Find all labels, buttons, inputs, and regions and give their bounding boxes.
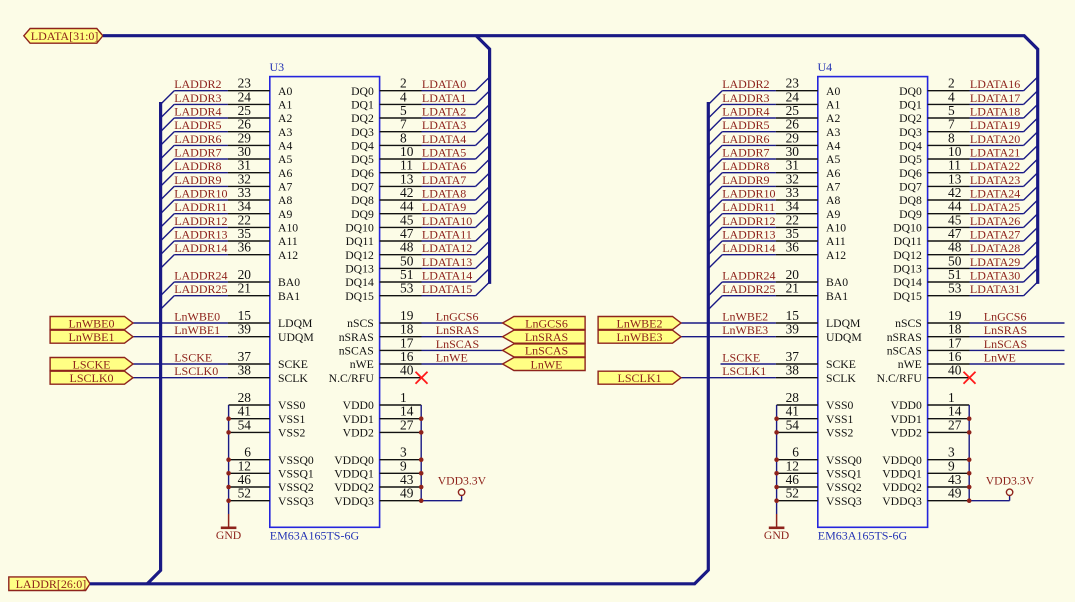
U3 pin 13 (DQ7) wire, net LDATA7, bus entry xyxy=(351,171,490,193)
svg-text:49: 49 xyxy=(400,486,414,501)
svg-text:LDATA12: LDATA12 xyxy=(422,241,472,255)
port LSCKE xyxy=(50,357,133,371)
svg-text:LADDR[26:0]: LADDR[26:0] xyxy=(16,577,87,591)
U3 VDD power rail wire xyxy=(421,405,461,501)
svg-text:LnGCS6: LnGCS6 xyxy=(436,310,479,324)
U4 pin 25 (A2) wire, net LADDR4, bus entry xyxy=(709,103,841,132)
port LSCLK1 xyxy=(598,371,681,385)
svg-text:UDQM: UDQM xyxy=(826,331,862,344)
U3 pin 4 (DQ1) wire, net LDATA1, bus entry xyxy=(351,89,490,111)
svg-text:VSS0: VSS0 xyxy=(278,399,305,412)
port LnWBE2 xyxy=(598,316,681,330)
svg-text:38: 38 xyxy=(786,363,800,378)
svg-text:VSS2: VSS2 xyxy=(278,427,305,440)
U3 pin 42 (DQ8) wire, net LDATA8, bus entry xyxy=(351,185,490,207)
svg-text:BA1: BA1 xyxy=(826,290,848,303)
U4 pin 34 (A9) wire, net LADDR11, bus entry xyxy=(709,199,841,228)
U4 pin 44 (DQ9) wire, net LDATA25, bus entry xyxy=(899,199,1038,221)
U3 power rail junctions xyxy=(419,416,424,503)
port LnGCS6 xyxy=(503,316,585,330)
svg-text:LADDR13: LADDR13 xyxy=(722,228,775,242)
svg-text:49: 49 xyxy=(948,486,962,501)
U4 pin 19 (nSCS) wire, net LnGCS6 xyxy=(895,308,1064,330)
svg-text:LADDR7: LADDR7 xyxy=(174,146,221,160)
svg-text:DQ14: DQ14 xyxy=(345,276,374,289)
U3 pin 10 (DQ5) wire, net LDATA5, bus entry xyxy=(351,144,490,166)
designator U4 xyxy=(818,60,833,74)
U3 pin 16 (nWE) wire, net LnWE xyxy=(350,349,503,371)
svg-text:21: 21 xyxy=(238,281,251,296)
U4 pin 38 (SCLK) wire, net LSCLK1 xyxy=(681,363,856,385)
svg-text:DQ13: DQ13 xyxy=(893,263,922,276)
U4 pin 3 (VDDQ0) xyxy=(882,445,969,467)
U4 pin 46 (VSSQ2) xyxy=(777,472,862,494)
svg-text:LnWE: LnWE xyxy=(436,351,468,365)
svg-text:LADDR11: LADDR11 xyxy=(722,200,775,214)
svg-text:DQ14: DQ14 xyxy=(893,276,922,289)
svg-text:LDQM: LDQM xyxy=(278,317,313,330)
svg-text:LnGCS6: LnGCS6 xyxy=(984,310,1027,324)
svg-text:VDDQ1: VDDQ1 xyxy=(334,467,374,480)
U3 pin 25 (A2) wire, net LADDR4, bus entry xyxy=(161,103,293,132)
svg-text:A10: A10 xyxy=(826,222,846,235)
svg-text:DQ9: DQ9 xyxy=(351,208,374,221)
U4 pin 27 (VDD2) xyxy=(891,417,970,439)
svg-text:VDD2: VDD2 xyxy=(343,427,374,440)
svg-text:LADDR5: LADDR5 xyxy=(174,118,221,132)
svg-text:LDATA24: LDATA24 xyxy=(970,187,1020,201)
svg-text:LSCLK0: LSCLK0 xyxy=(174,364,218,378)
svg-text:LADDR25: LADDR25 xyxy=(174,282,227,296)
IC U4 EM63A165TS-6G chip body xyxy=(818,77,928,528)
U3 pin 7 (DQ3) wire, net LDATA3, bus entry xyxy=(351,117,490,139)
U3 VSS ground rail wire xyxy=(228,405,230,514)
svg-text:U4: U4 xyxy=(818,60,833,74)
svg-text:LnWBE0: LnWBE0 xyxy=(69,316,115,330)
svg-text:LDATA13: LDATA13 xyxy=(422,255,472,269)
U4 pin 11 (DQ6) wire, net LDATA22, bus entry xyxy=(899,158,1038,180)
svg-text:DQ10: DQ10 xyxy=(893,222,922,235)
U4 pin 12 (VSSQ1) xyxy=(777,458,862,480)
svg-text:LADDR9: LADDR9 xyxy=(722,173,769,187)
svg-text:LADDR14: LADDR14 xyxy=(174,241,227,255)
U4 VDD power rail wire xyxy=(969,405,1009,501)
svg-text:A7: A7 xyxy=(278,181,292,194)
svg-text:A1: A1 xyxy=(826,99,840,112)
svg-text:A4: A4 xyxy=(278,140,292,153)
svg-text:DQ4: DQ4 xyxy=(899,140,922,153)
svg-text:A11: A11 xyxy=(826,235,846,248)
svg-text:LADDR6: LADDR6 xyxy=(174,132,221,146)
svg-text:LnGCS6: LnGCS6 xyxy=(525,316,568,330)
U3 ground rail junctions xyxy=(226,416,231,503)
svg-text:SCKE: SCKE xyxy=(826,358,856,371)
U3 pin 31 (A6) wire, net LADDR8, bus entry xyxy=(161,158,293,187)
U3 pin 14 (VDD1) xyxy=(343,404,422,426)
svg-text:LDATA27: LDATA27 xyxy=(970,228,1020,242)
svg-text:LADDR24: LADDR24 xyxy=(174,269,227,283)
svg-text:A10: A10 xyxy=(278,222,298,235)
svg-text:VSS0: VSS0 xyxy=(826,399,853,412)
IC U3 EM63A165TS-6G chip body xyxy=(270,77,380,528)
svg-text:LDATA5: LDATA5 xyxy=(422,146,466,160)
U4 pin 22 (A10) wire, net LADDR12, bus entry xyxy=(709,212,847,241)
U4 power rail junctions xyxy=(967,416,972,503)
svg-text:VSSQ2: VSSQ2 xyxy=(278,481,314,494)
svg-text:VSSQ1: VSSQ1 xyxy=(278,467,314,480)
svg-text:LADDR7: LADDR7 xyxy=(722,146,769,160)
svg-text:VSSQ0: VSSQ0 xyxy=(278,454,314,467)
svg-text:LSCKE: LSCKE xyxy=(72,357,110,371)
U3 pin 44 (DQ9) wire, net LDATA9, bus entry xyxy=(351,199,490,221)
svg-text:A8: A8 xyxy=(278,194,292,207)
svg-text:VSS1: VSS1 xyxy=(826,413,853,426)
ground symbol GND (U3) xyxy=(216,514,241,542)
svg-text:LSCKE: LSCKE xyxy=(722,351,760,365)
svg-text:nWE: nWE xyxy=(898,358,922,371)
U3 pin 40 (N.C/RFU) with no-connect X xyxy=(329,363,428,385)
svg-text:54: 54 xyxy=(238,417,252,432)
U4 pin 39 (UDQM) wire, net LnWBE3 xyxy=(681,322,862,344)
svg-text:LDATA28: LDATA28 xyxy=(970,241,1020,255)
svg-text:LnWBE2: LnWBE2 xyxy=(722,310,768,324)
svg-text:VDDQ0: VDDQ0 xyxy=(882,454,922,467)
svg-text:LSCKE: LSCKE xyxy=(174,351,212,365)
svg-text:A3: A3 xyxy=(278,126,292,139)
U4 pin 18 (nSRAS) wire, net LnSRAS xyxy=(887,322,1065,344)
U4 pin 7 (DQ3) wire, net LDATA19, bus entry xyxy=(899,117,1038,139)
svg-text:A6: A6 xyxy=(278,167,292,180)
svg-text:DQ1: DQ1 xyxy=(899,99,922,112)
port LnSCAS xyxy=(503,344,585,358)
svg-text:LDATA29: LDATA29 xyxy=(970,255,1020,269)
U4 pin 20 (BA0) wire, net LADDR24, bus entry xyxy=(709,267,849,296)
U3 pin 33 (A8) wire, net LADDR10, bus entry xyxy=(161,185,293,214)
svg-text:DQ12: DQ12 xyxy=(345,249,374,262)
svg-text:LADDR2: LADDR2 xyxy=(722,77,769,91)
svg-text:LADDR10: LADDR10 xyxy=(722,187,775,201)
U4 pin 43 (VDDQ2) xyxy=(882,472,969,494)
U4 ground rail junctions xyxy=(774,416,779,503)
U3 pin 48 (DQ12) wire, net LDATA12, bus entry xyxy=(345,240,489,262)
svg-text:LADDR6: LADDR6 xyxy=(722,132,769,146)
svg-text:LADDR13: LADDR13 xyxy=(174,228,227,242)
U3 pin 12 (VSSQ1) xyxy=(229,458,314,480)
svg-text:DQ5: DQ5 xyxy=(351,153,374,166)
svg-text:A11: A11 xyxy=(278,235,298,248)
svg-text:LDATA9: LDATA9 xyxy=(422,200,466,214)
U3 pin 35 (A11) wire, net LADDR13, bus entry xyxy=(161,226,298,255)
U3 pin 26 (A3) wire, net LADDR5, bus entry xyxy=(161,117,293,146)
svg-text:LnSRAS: LnSRAS xyxy=(984,323,1027,337)
svg-text:LDATA21: LDATA21 xyxy=(970,146,1020,160)
U4 pin 40 (N.C/RFU) with no-connect X xyxy=(877,363,976,385)
svg-text:36: 36 xyxy=(238,240,252,255)
U3 pin 34 (A9) wire, net LADDR11, bus entry xyxy=(161,199,293,228)
svg-text:40: 40 xyxy=(400,363,414,378)
U4 pin 10 (DQ5) wire, net LDATA21, bus entry xyxy=(899,144,1038,166)
U4 pin 1 (VDD0) xyxy=(891,390,970,412)
svg-text:LADDR2: LADDR2 xyxy=(174,77,221,91)
value label EM63A165TS-6G (U3) xyxy=(270,529,360,543)
U3 pin 22 (A10) wire, net LADDR12, bus entry xyxy=(161,212,299,241)
U3 pin 38 (SCLK) wire, net LSCLK0 xyxy=(133,363,308,385)
U4 pin 41 (VSS1) xyxy=(777,404,854,426)
svg-text:VDD0: VDD0 xyxy=(891,399,922,412)
U4 pin 37 (SCKE) wire, net LSCKE xyxy=(721,349,856,371)
U4 pin 5 (DQ2) wire, net LDATA18, bus entry xyxy=(899,103,1038,125)
svg-text:LnWBE3: LnWBE3 xyxy=(617,330,663,344)
svg-text:nSCS: nSCS xyxy=(347,317,374,330)
svg-text:DQ0: DQ0 xyxy=(899,85,922,98)
svg-text:VSSQ3: VSSQ3 xyxy=(278,495,314,508)
svg-text:DQ10: DQ10 xyxy=(345,222,374,235)
U4 pin 54 (VSS2) xyxy=(777,417,854,439)
svg-text:A2: A2 xyxy=(826,112,840,125)
U4 pin 15 (LDQM) wire, net LnWBE2 xyxy=(681,308,861,330)
svg-text:LADDR25: LADDR25 xyxy=(722,282,775,296)
U4 pin 30 (A5) wire, net LADDR7, bus entry xyxy=(709,144,841,173)
svg-text:VSSQ1: VSSQ1 xyxy=(826,467,862,480)
svg-text:LDQM: LDQM xyxy=(826,317,861,330)
svg-text:VDD3.3V: VDD3.3V xyxy=(986,474,1035,487)
U4 pin 14 (VDD1) xyxy=(891,404,970,426)
svg-text:LDATA3: LDATA3 xyxy=(422,118,466,132)
port LDATA[31:0] xyxy=(24,29,103,44)
svg-text:LADDR10: LADDR10 xyxy=(174,187,227,201)
svg-text:A8: A8 xyxy=(826,194,840,207)
svg-text:VSSQ3: VSSQ3 xyxy=(826,495,862,508)
svg-text:LADDR4: LADDR4 xyxy=(722,105,769,119)
svg-text:LADDR11: LADDR11 xyxy=(174,200,227,214)
svg-text:DQ9: DQ9 xyxy=(899,208,922,221)
U4 pin 17 (nSCAS) wire, net LnSCAS xyxy=(887,335,1065,357)
svg-text:U3: U3 xyxy=(270,60,285,74)
svg-text:DQ8: DQ8 xyxy=(351,194,374,207)
svg-text:LnSCAS: LnSCAS xyxy=(525,344,568,358)
svg-text:DQ1: DQ1 xyxy=(351,99,374,112)
svg-text:GND: GND xyxy=(764,529,789,542)
U4 pin 50 (DQ13) wire, net LDATA29, bus entry xyxy=(893,253,1037,275)
U4 pin 16 (nWE) wire, net LnWE xyxy=(898,349,1065,371)
port LnSRAS xyxy=(503,330,585,344)
svg-text:VDDQ3: VDDQ3 xyxy=(334,495,374,508)
U3 pin 20 (BA0) wire, net LADDR24, bus entry xyxy=(161,267,301,296)
U3 pin 49 (VDDQ3) xyxy=(334,486,421,508)
svg-text:LDATA23: LDATA23 xyxy=(970,173,1020,187)
U4 pin 21 (BA1) wire, net LADDR25, bus entry xyxy=(709,281,849,310)
svg-text:SCLK: SCLK xyxy=(278,372,308,385)
svg-text:GND: GND xyxy=(216,529,241,542)
svg-text:LnWBE1: LnWBE1 xyxy=(69,330,115,344)
svg-text:LSCLK0: LSCLK0 xyxy=(69,371,113,385)
svg-text:VSSQ2: VSSQ2 xyxy=(826,481,862,494)
U3 pin 54 (VSS2) xyxy=(229,417,306,439)
port LnWBE3 xyxy=(598,330,681,344)
svg-text:A5: A5 xyxy=(278,153,292,166)
U4 pin 29 (A4) wire, net LADDR6, bus entry xyxy=(709,130,841,159)
svg-text:LADDR3: LADDR3 xyxy=(174,91,221,105)
U3 pin 47 (DQ11) wire, net LDATA11, bus entry xyxy=(346,226,490,248)
U3 pin 24 (A1) wire, net LADDR3, bus entry xyxy=(161,89,293,118)
svg-text:N.C/RFU: N.C/RFU xyxy=(877,372,923,385)
svg-text:EM63A165TS-6G: EM63A165TS-6G xyxy=(270,529,360,543)
svg-text:A2: A2 xyxy=(278,112,292,125)
svg-text:DQ7: DQ7 xyxy=(351,181,374,194)
svg-text:VDD2: VDD2 xyxy=(891,427,922,440)
U4 pin 49 (VDDQ3) xyxy=(882,486,969,508)
U4 pin 53 (DQ15) wire, net LDATA31, bus entry xyxy=(893,281,1037,303)
svg-text:LDATA20: LDATA20 xyxy=(970,132,1020,146)
power port VDD3.3V (U4) xyxy=(986,474,1035,495)
svg-text:LADDR12: LADDR12 xyxy=(174,214,227,228)
U4 pin 31 (A6) wire, net LADDR8, bus entry xyxy=(709,158,841,187)
svg-text:52: 52 xyxy=(238,486,251,501)
svg-text:BA1: BA1 xyxy=(278,290,300,303)
U3 pin 17 (nSCAS) wire, net LnSCAS xyxy=(339,335,503,357)
svg-text:40: 40 xyxy=(948,363,962,378)
U3 pin 3 (VDDQ0) xyxy=(334,445,421,467)
svg-text:LnSRAS: LnSRAS xyxy=(436,323,479,337)
U3 pin 41 (VSS1) xyxy=(229,404,306,426)
port LnWE xyxy=(503,357,585,371)
bus LDATA[31:0] horizontal + corner + U4 right vertical bus xyxy=(103,36,1038,284)
svg-text:DQ7: DQ7 xyxy=(899,181,922,194)
U4 pin 9 (VDDQ1) xyxy=(882,458,969,480)
svg-text:A12: A12 xyxy=(826,249,846,262)
svg-text:LDATA11: LDATA11 xyxy=(422,228,472,242)
U3 pin 46 (VSSQ2) xyxy=(229,472,314,494)
U4 pin 51 (DQ14) wire, net LDATA30, bus entry xyxy=(893,267,1037,289)
svg-text:LADDR3: LADDR3 xyxy=(722,91,769,105)
svg-text:LDATA31: LDATA31 xyxy=(970,282,1020,296)
svg-text:LADDR24: LADDR24 xyxy=(722,269,775,283)
bus U3 right vertical (LDATA0-15) with tap from top bus xyxy=(476,36,489,284)
U3 pin 21 (BA1) wire, net LADDR25, bus entry xyxy=(161,281,301,310)
svg-text:LADDR5: LADDR5 xyxy=(722,118,769,132)
svg-text:A0: A0 xyxy=(826,85,840,98)
svg-text:DQ6: DQ6 xyxy=(351,167,374,180)
U3 pin 2 (DQ0) wire, net LDATA0, bus entry xyxy=(351,76,490,98)
U4 pin 2 (DQ0) wire, net LDATA16, bus entry xyxy=(899,76,1038,98)
svg-text:A1: A1 xyxy=(278,99,292,112)
U4 pin 24 (A1) wire, net LADDR3, bus entry xyxy=(709,89,841,118)
svg-text:21: 21 xyxy=(786,281,799,296)
svg-text:DQ3: DQ3 xyxy=(351,126,374,139)
svg-text:VSSQ0: VSSQ0 xyxy=(826,454,862,467)
port LADDR[26:0] xyxy=(9,577,90,591)
svg-text:A9: A9 xyxy=(826,208,840,221)
svg-text:LnWE: LnWE xyxy=(531,357,563,371)
U4 pin 33 (A8) wire, net LADDR10, bus entry xyxy=(709,185,841,214)
U3 pin 50 (DQ13) wire, net LDATA13, bus entry xyxy=(345,253,489,275)
svg-text:LADDR8: LADDR8 xyxy=(174,159,221,173)
svg-text:A9: A9 xyxy=(278,208,292,221)
svg-text:DQ2: DQ2 xyxy=(351,112,374,125)
U3 pin 36 (A12) wire, net LADDR14, bus entry xyxy=(161,240,299,269)
svg-text:38: 38 xyxy=(238,363,252,378)
bus U3 left vertical (LADDR) with tap from bottom bus xyxy=(147,102,160,584)
U4 pin 52 (VSSQ3) xyxy=(777,486,862,508)
svg-text:DQ15: DQ15 xyxy=(345,290,374,303)
U3 pin 53 (DQ15) wire, net LDATA15, bus entry xyxy=(345,281,489,303)
svg-text:DQ12: DQ12 xyxy=(893,249,922,262)
U4 pin 32 (A7) wire, net LADDR9, bus entry xyxy=(709,171,841,200)
U3 pin 15 (LDQM) wire, net LnWBE0 xyxy=(133,308,313,330)
svg-text:53: 53 xyxy=(400,281,414,296)
U4 pin 13 (DQ7) wire, net LDATA23, bus entry xyxy=(899,171,1038,193)
U4 pin 6 (VSSQ0) xyxy=(777,445,862,467)
svg-text:A3: A3 xyxy=(826,126,840,139)
svg-text:LADDR4: LADDR4 xyxy=(174,105,221,119)
U3 pin 6 (VSSQ0) xyxy=(229,445,314,467)
svg-text:LDATA0: LDATA0 xyxy=(422,77,466,91)
svg-text:VDD0: VDD0 xyxy=(343,399,374,412)
U3 pin 1 (VDD0) xyxy=(343,390,422,412)
U3 pin 27 (VDD2) xyxy=(343,417,422,439)
svg-text:LADDR9: LADDR9 xyxy=(174,173,221,187)
svg-text:LDATA16: LDATA16 xyxy=(970,77,1020,91)
svg-text:A5: A5 xyxy=(826,153,840,166)
svg-text:VSS1: VSS1 xyxy=(278,413,305,426)
svg-text:LnWE: LnWE xyxy=(984,351,1016,365)
port LnWBE0 xyxy=(50,316,133,330)
U3 pin 43 (VDDQ2) xyxy=(334,472,421,494)
svg-text:nSRAS: nSRAS xyxy=(339,331,374,344)
svg-text:LADDR12: LADDR12 xyxy=(722,214,775,228)
svg-text:DQ11: DQ11 xyxy=(346,235,374,248)
svg-text:LDATA4: LDATA4 xyxy=(422,132,466,146)
svg-text:A4: A4 xyxy=(826,140,840,153)
svg-text:54: 54 xyxy=(786,417,800,432)
U3 pin 39 (UDQM) wire, net LnWBE1 xyxy=(133,322,314,344)
designator U3 xyxy=(270,60,285,74)
svg-text:LnWBE2: LnWBE2 xyxy=(617,316,663,330)
U3 pin 30 (A5) wire, net LADDR7, bus entry xyxy=(161,144,293,173)
svg-text:LDATA26: LDATA26 xyxy=(970,214,1020,228)
U4 pin 36 (A12) wire, net LADDR14, bus entry xyxy=(709,240,847,269)
svg-text:LDATA[31:0]: LDATA[31:0] xyxy=(31,29,99,43)
U3 pin 5 (DQ2) wire, net LDATA2, bus entry xyxy=(351,103,490,125)
svg-text:52: 52 xyxy=(786,486,799,501)
svg-text:LDATA8: LDATA8 xyxy=(422,187,466,201)
svg-text:LDATA15: LDATA15 xyxy=(422,282,472,296)
svg-text:DQ13: DQ13 xyxy=(345,263,374,276)
svg-text:27: 27 xyxy=(400,417,414,432)
svg-text:DQ15: DQ15 xyxy=(893,290,922,303)
svg-text:LDATA25: LDATA25 xyxy=(970,200,1020,214)
U3 pin 45 (DQ10) wire, net LDATA10, bus entry xyxy=(345,212,489,234)
svg-text:LDATA7: LDATA7 xyxy=(422,173,466,187)
svg-text:nSCS: nSCS xyxy=(895,317,922,330)
svg-text:VSS2: VSS2 xyxy=(826,427,853,440)
U3 pin 23 (A0) wire, net LADDR2, bus entry xyxy=(161,76,293,105)
svg-text:VDDQ1: VDDQ1 xyxy=(882,467,922,480)
svg-text:39: 39 xyxy=(238,322,252,337)
U3 pin 52 (VSSQ3) xyxy=(229,486,314,508)
svg-text:DQ0: DQ0 xyxy=(351,85,374,98)
U4 pin 28 (VSS0) xyxy=(777,390,854,412)
svg-text:nSCAS: nSCAS xyxy=(887,345,922,358)
bus LADDR[26:0] horizontal + corner + U4 left vertical bus xyxy=(90,102,708,584)
svg-text:VDDQ3: VDDQ3 xyxy=(882,495,922,508)
svg-text:53: 53 xyxy=(948,281,962,296)
port LnWBE1 xyxy=(50,330,133,344)
value label EM63A165TS-6G (U4) xyxy=(818,529,908,543)
svg-text:LDATA2: LDATA2 xyxy=(422,105,466,119)
svg-text:LnSCAS: LnSCAS xyxy=(436,337,479,351)
svg-text:VDDQ2: VDDQ2 xyxy=(334,481,374,494)
